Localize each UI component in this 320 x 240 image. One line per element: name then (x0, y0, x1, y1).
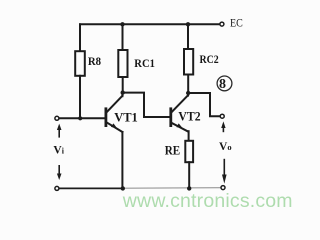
node top rail RC2 junction (186, 22, 190, 26)
terminal EC (220, 22, 224, 26)
node VT1 emitter / bottom rail junction (121, 186, 125, 190)
svg-text:Vo: Vo (219, 141, 232, 153)
wire RC2 bottom stub (187, 75, 189, 94)
svg-text:8: 8 (219, 77, 226, 92)
arrow Vo up (221, 121, 225, 132)
svg-text:EC: EC (230, 17, 243, 29)
transistor VT1 (106, 93, 123, 132)
wire bottom rail left (59, 187, 124, 189)
resistor RC1 (118, 50, 127, 77)
resistor RE (185, 141, 193, 162)
svg-text:RE: RE (165, 144, 180, 158)
svg-text:VT1: VT1 (114, 111, 138, 125)
arrow Vo down (222, 159, 227, 184)
symbol circled 8 (217, 76, 232, 92)
svg-text:RC1: RC1 (134, 58, 155, 70)
arrow Vi up (57, 124, 62, 138)
svg-text:VT2: VT2 (178, 110, 200, 124)
wire VT1 base from input (59, 117, 106, 119)
wire VT1 emitter down to bottom rail (121, 132, 123, 188)
arrow Vi down (57, 165, 62, 180)
terminal output Vo (220, 114, 224, 118)
resistor RC2 (184, 49, 193, 75)
wire top supply rail (80, 23, 220, 25)
wire VT2 collector to output terminal (188, 93, 220, 116)
wire RC1 top stub (122, 24, 124, 50)
wire RE bottom stub (188, 162, 190, 188)
node RE / bottom rail junction (187, 186, 191, 190)
svg-text:R8: R8 (88, 56, 101, 68)
svg-text:www.cntronics.com: www.cntronics.com (122, 190, 293, 212)
wire coupling VT1 collector to VT2 base (123, 93, 170, 117)
terminal input bottom (55, 186, 59, 190)
node VT1 base / R8 junction (78, 116, 82, 120)
node top rail RC1 junction (120, 22, 124, 26)
terminal input top (55, 116, 59, 120)
node VT1 collector / RC1 junction (121, 90, 125, 94)
svg-text:Vi: Vi (53, 144, 64, 156)
svg-text:RC2: RC2 (200, 54, 219, 66)
transistor VT2 (171, 93, 188, 132)
wire bottom rail right (123, 187, 221, 190)
wire R8 bottom stub (79, 76, 81, 119)
wire R8 top stub (79, 24, 81, 51)
resistor R8 (75, 51, 85, 76)
wire RC1 bottom stub (122, 77, 124, 93)
wire RC2 top stub (187, 24, 189, 49)
node VT2 collector / RC2 junction (186, 91, 190, 95)
terminal output bottom (221, 186, 225, 190)
wire VT2 emitter to RE (188, 131, 190, 141)
